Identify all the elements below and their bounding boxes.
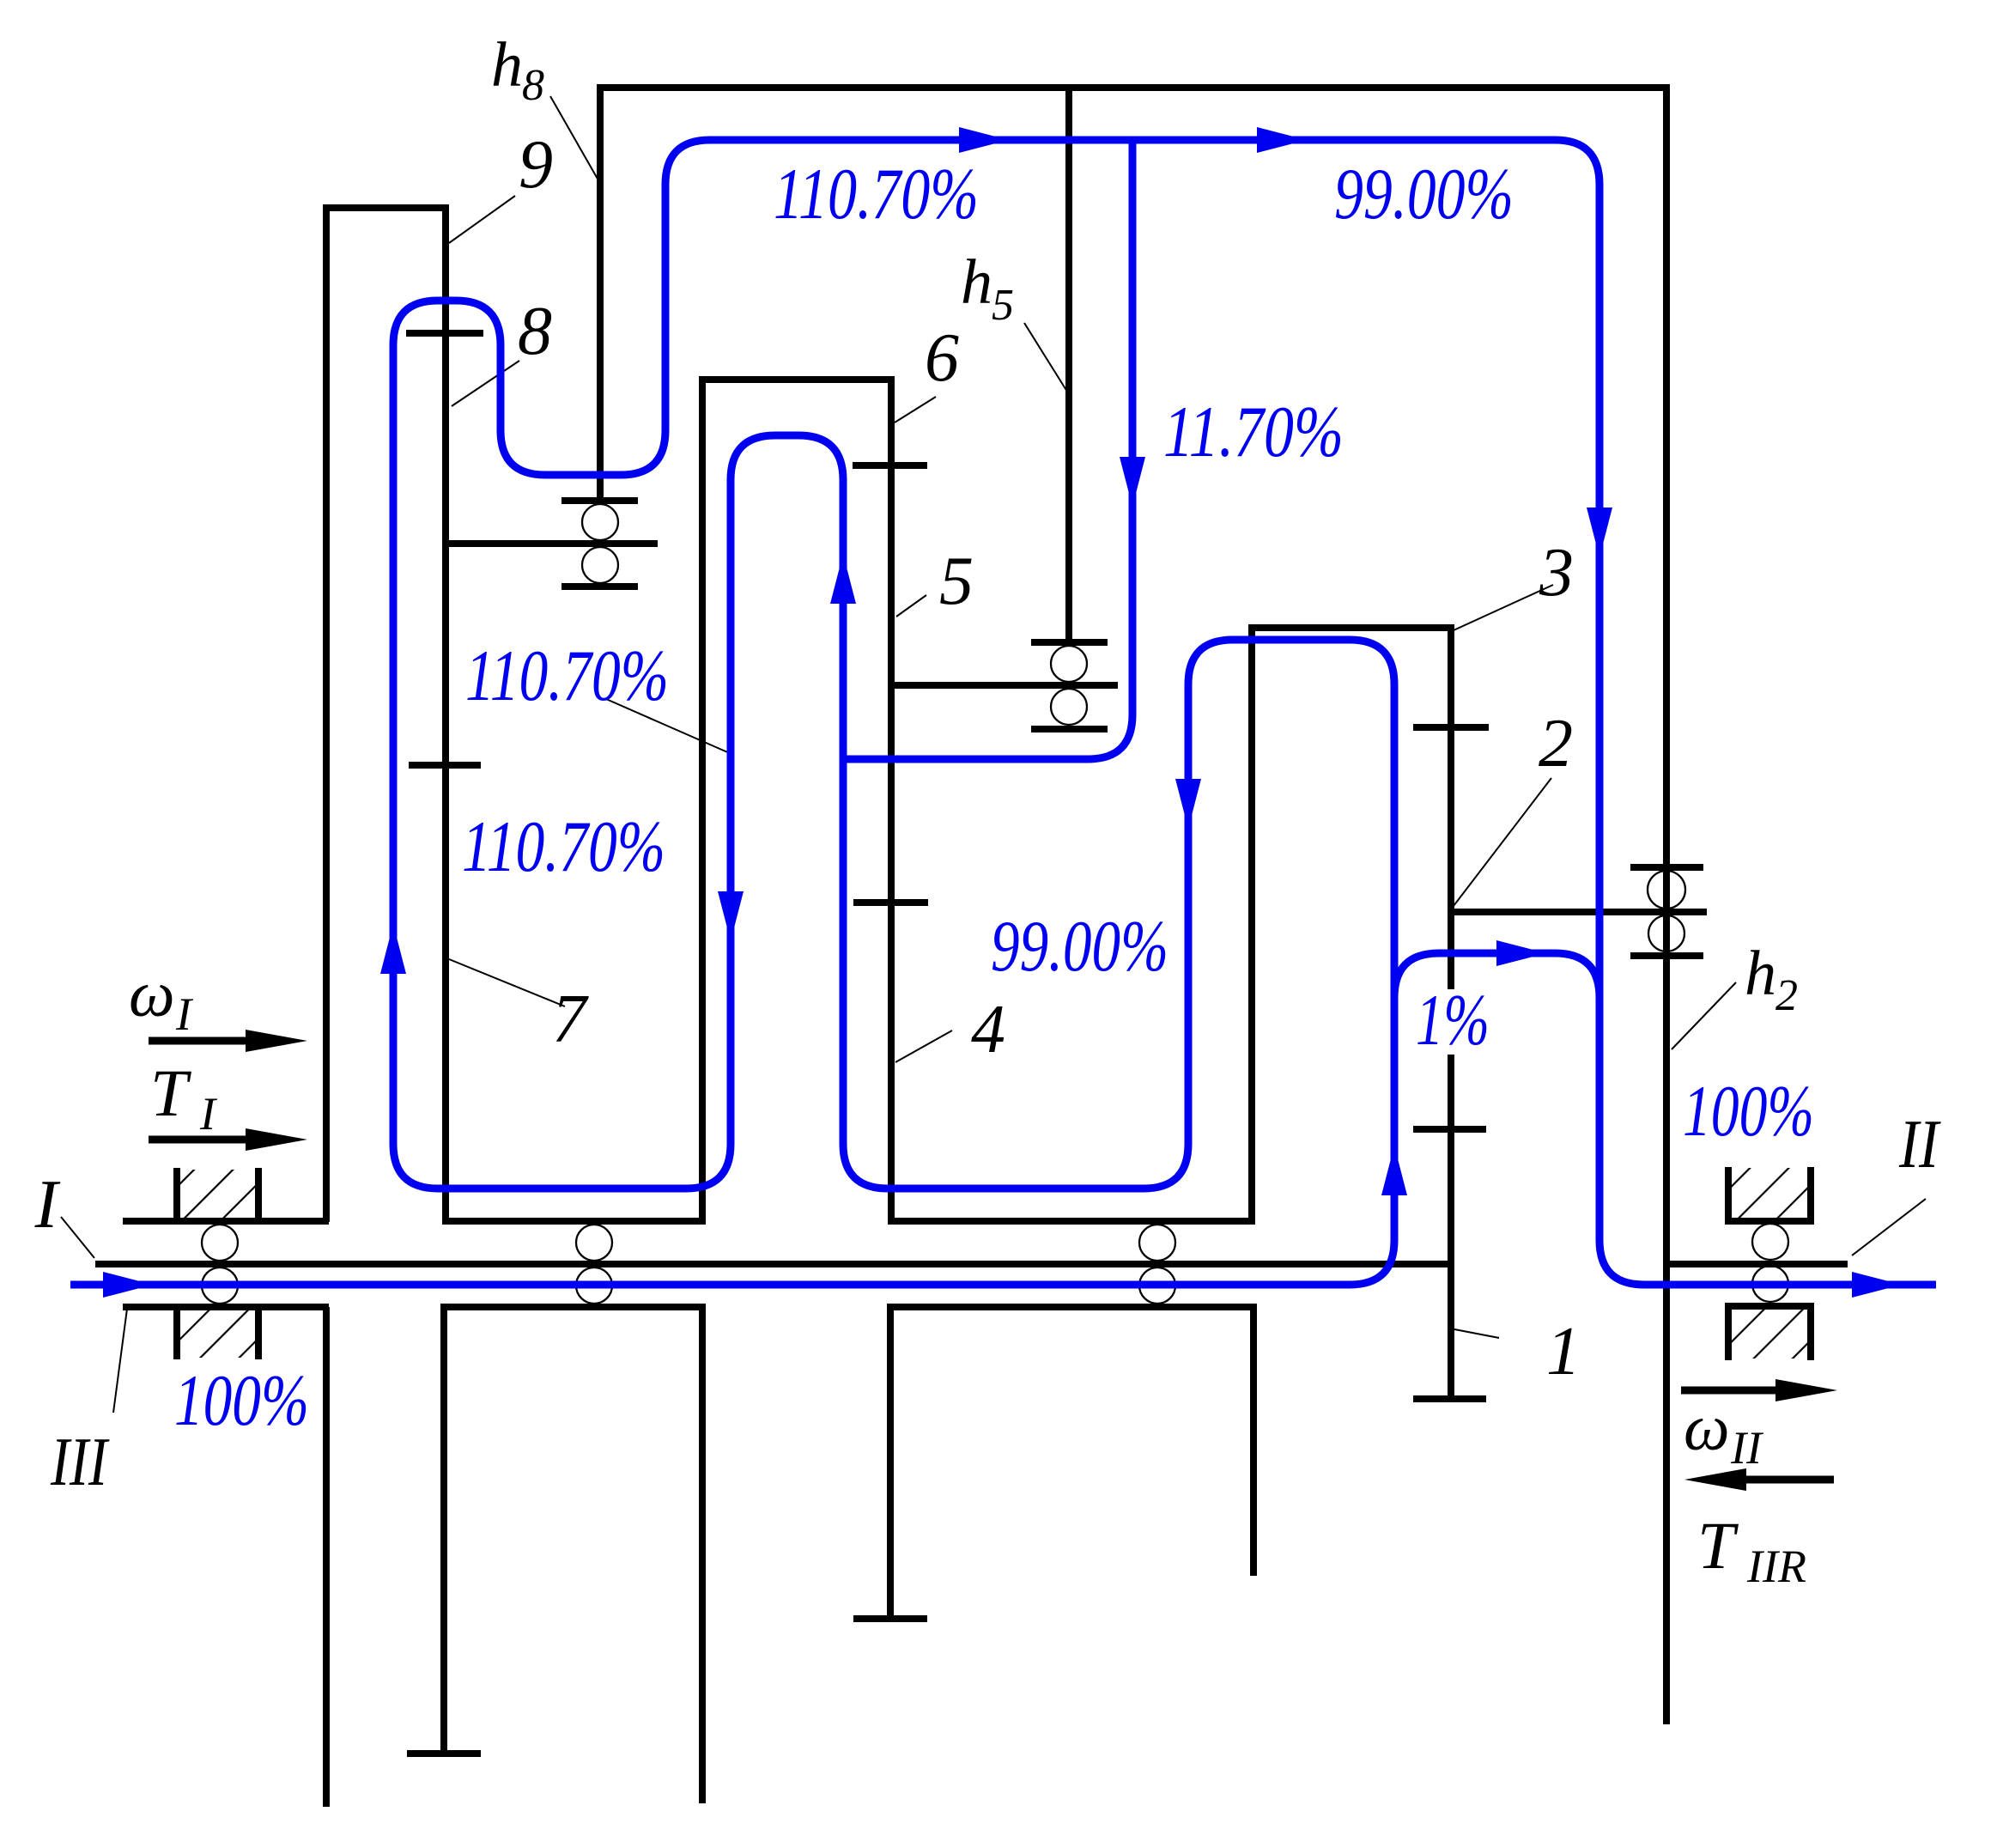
h2 bearing ball upper: [1648, 871, 1685, 909]
input torque arrow (T I): [149, 1136, 251, 1144]
svg-text:II: II: [1898, 1107, 1941, 1182]
gear 4 lower mesh bar: [853, 1615, 927, 1622]
leader of label 9: [449, 196, 515, 243]
svg-text:99.00%: 99.00%: [1334, 154, 1514, 234]
svg-text:h: h: [491, 30, 523, 100]
support of shaft I, lower hatched block: [123, 1304, 329, 1310]
flow arrow gear6 loop down: [718, 891, 744, 941]
gear 9 housing top bar: [323, 204, 449, 211]
gear 6 lower housing wall: [699, 1307, 706, 1803]
gear 9 ring / input housing left wall: [323, 208, 330, 1222]
h8 bearing ball upper: [582, 504, 618, 540]
gear 6 housing top bar: [699, 376, 895, 383]
h5 bearing ball lower: [1051, 689, 1087, 725]
flow arrow input 100%: [103, 1272, 153, 1298]
svg-text:4: 4: [971, 992, 1005, 1067]
svg-text:ω: ω: [129, 958, 175, 1030]
flow branch 1%: from gear1 riser across to gear2 drop line: [1394, 953, 1599, 998]
h8 bearing lower bar: [561, 583, 638, 590]
h2 bearing mid line (to gear 2 line): [1451, 909, 1707, 915]
axis bearing at gear7 frame, upper ball: [576, 1225, 612, 1261]
h5 bearing ball upper: [1051, 646, 1087, 682]
h5 bearing lower bar: [1031, 726, 1108, 733]
svg-text:III: III: [50, 1425, 110, 1500]
gears 3-2-1 wheel line (upper part, gap for 1% label): [1448, 624, 1454, 1399]
svg-text:5: 5: [939, 544, 974, 619]
axis bearing at gear4 frame, upper ball: [1139, 1225, 1175, 1261]
gear 4 lower wheel line: [887, 1307, 894, 1619]
flow arrow 110.70% top: [959, 127, 1009, 153]
output speed arrow (omega II): [1681, 1387, 1781, 1395]
axis bearing at gear4 frame, lower ball: [1139, 1267, 1175, 1304]
gear 6 mesh tick: [853, 462, 927, 469]
svg-text:100%: 100%: [174, 1360, 309, 1441]
leader of label I: [61, 1217, 94, 1258]
axis bearing at gear7 frame, lower ball: [576, 1267, 612, 1304]
svg-text:100%: 100%: [1683, 1071, 1814, 1152]
gear 2 mesh tick: [1413, 1126, 1486, 1133]
svg-text:110.70%: 110.70%: [462, 806, 665, 887]
flow arrow 99.00% down: [1587, 508, 1612, 557]
svg-text:h: h: [1745, 939, 1776, 1009]
svg-text:110.70%: 110.70%: [774, 154, 979, 234]
carrier U bottom (gears 4-3 frame): [888, 1218, 1255, 1225]
flow arrow 1% right: [1496, 940, 1546, 966]
svg-text:2: 2: [1539, 706, 1573, 781]
svg-text:T: T: [150, 1055, 191, 1130]
shaft II support bearing ball upper: [1752, 1224, 1788, 1260]
carrier U bottom (gears 7-6 frame): [442, 1218, 706, 1225]
power flow trunk: input shaft I -> gear1 riser -> gear3 loop -> gear5 loop -> gear7 loop -> gear8 S-bend -> carrier top -> gear2 drop -> output shaft II: [70, 140, 1936, 1285]
svg-text:I: I: [175, 988, 194, 1040]
flow arrow gear5 loop up: [830, 554, 856, 604]
h5 bearing mid line (to gear 5 line): [891, 682, 1118, 689]
flow branch 11.70%: down beside h5 to gear5 riser junction: [843, 140, 1132, 759]
support of shaft II, upper hatched block: [1732, 1168, 1807, 1218]
h2 bearing lower bar: [1630, 952, 1703, 959]
shaft II axis line: [1666, 1261, 1848, 1267]
svg-text:99.00%: 99.00%: [991, 906, 1168, 987]
white gap behind 1% label: [1427, 989, 1494, 1055]
carrier top bar h (connects h8,h5,h2): [597, 84, 1670, 91]
svg-text:8: 8: [518, 294, 552, 369]
input speed arrow (omega I): [149, 1037, 251, 1045]
svg-text:7: 7: [552, 982, 589, 1057]
flow arrow 99.00% top: [1257, 127, 1307, 153]
leader of label 8: [452, 361, 519, 406]
svg-text:2: 2: [1775, 971, 1798, 1020]
leader of label h8: [550, 96, 598, 180]
shaft I support bearing ball lower: [202, 1267, 238, 1304]
gears 6-5-4 wheel line: [888, 376, 895, 1221]
shaft III / lower ring wall: [323, 1307, 330, 1807]
svg-text:T: T: [1697, 1508, 1739, 1583]
leader of label II: [1852, 1199, 1926, 1255]
output reaction torque arrow (T IIR): [1741, 1476, 1834, 1484]
flow arrow gear3 loop down: [1175, 779, 1201, 829]
gear 1 end bar: [1413, 1395, 1486, 1402]
flow arrow output 100%: [1852, 1272, 1902, 1298]
gear 3 housing left wall: [1248, 628, 1255, 1221]
gear 8 mesh tick: [406, 330, 483, 337]
leader of middle 110.70% label: [606, 699, 731, 754]
h5 bearing seat bar: [1031, 639, 1108, 646]
h2 bearing upper bar: [1630, 864, 1703, 871]
h8 bearing seat bar: [561, 497, 638, 504]
svg-text:6: 6: [925, 320, 959, 396]
flow arrow 11.70% down: [1120, 457, 1145, 507]
lower frame bridge (gears 7-6 mirror): [440, 1304, 706, 1310]
h8 bearing mid line (to gear 7 line): [446, 540, 658, 547]
gear 7 lower wheel line: [440, 1307, 447, 1754]
h2 bearing ball lower: [1648, 915, 1684, 951]
svg-text:8: 8: [522, 61, 544, 110]
svg-text:I: I: [199, 1088, 218, 1140]
svg-text:3: 3: [1539, 535, 1574, 611]
leader of label 6: [895, 397, 936, 422]
gear 7 mesh tick: [409, 762, 481, 769]
svg-text:11.70%: 11.70%: [1163, 392, 1344, 472]
support of shaft II, lower hatched block: [1725, 1303, 1814, 1310]
flow arrow 1% up: [1381, 1146, 1407, 1195]
carrier shaft h8: [597, 84, 604, 501]
gear 3 lower housing wall: [1250, 1307, 1257, 1576]
leader of label 5: [896, 595, 926, 617]
h8 bearing ball lower: [582, 547, 618, 583]
svg-text:ω: ω: [1684, 1392, 1730, 1464]
carrier shaft h2 (right vertical): [1663, 84, 1670, 1724]
shaft I axis line: [95, 1261, 1451, 1267]
lower frame bridge (gears 4-3 mirror): [887, 1304, 1257, 1310]
leader of label 3: [1454, 585, 1553, 630]
svg-text:I: I: [34, 1167, 61, 1243]
leader of label III: [113, 1309, 127, 1413]
svg-text:1: 1: [1546, 1314, 1581, 1389]
shaft I support bearing ball upper: [202, 1225, 238, 1261]
svg-text:5: 5: [992, 281, 1014, 330]
leader of label h2: [1672, 982, 1736, 1049]
gear 6 housing left wall: [699, 380, 706, 1221]
gear 3 housing top bar: [1248, 624, 1454, 631]
svg-text:h: h: [961, 247, 992, 318]
carrier shaft h5: [1065, 84, 1072, 642]
svg-text:IIR: IIR: [1746, 1541, 1806, 1592]
svg-text:110.70%: 110.70%: [465, 635, 669, 716]
leader of label h5: [1024, 323, 1067, 392]
gear 7 lower mesh bar: [407, 1750, 481, 1757]
gear 4 mesh tick: [853, 899, 928, 906]
support of shaft I, upper hatched block: [180, 1170, 255, 1219]
svg-text:II: II: [1730, 1422, 1764, 1474]
leader of label 4: [895, 1030, 952, 1062]
leader of label 7: [449, 959, 565, 1006]
shaft II support bearing ball lower: [1752, 1266, 1788, 1302]
gears 9-8-7 wheel line: [442, 204, 449, 1221]
svg-text:9: 9: [519, 127, 553, 203]
leader of label 2: [1454, 778, 1551, 906]
flow arrow gear7 loop up: [380, 924, 406, 974]
leader of label 1: [1454, 1329, 1499, 1338]
gear 3 mesh tick: [1413, 724, 1489, 731]
svg-text:1%: 1%: [1416, 980, 1490, 1061]
